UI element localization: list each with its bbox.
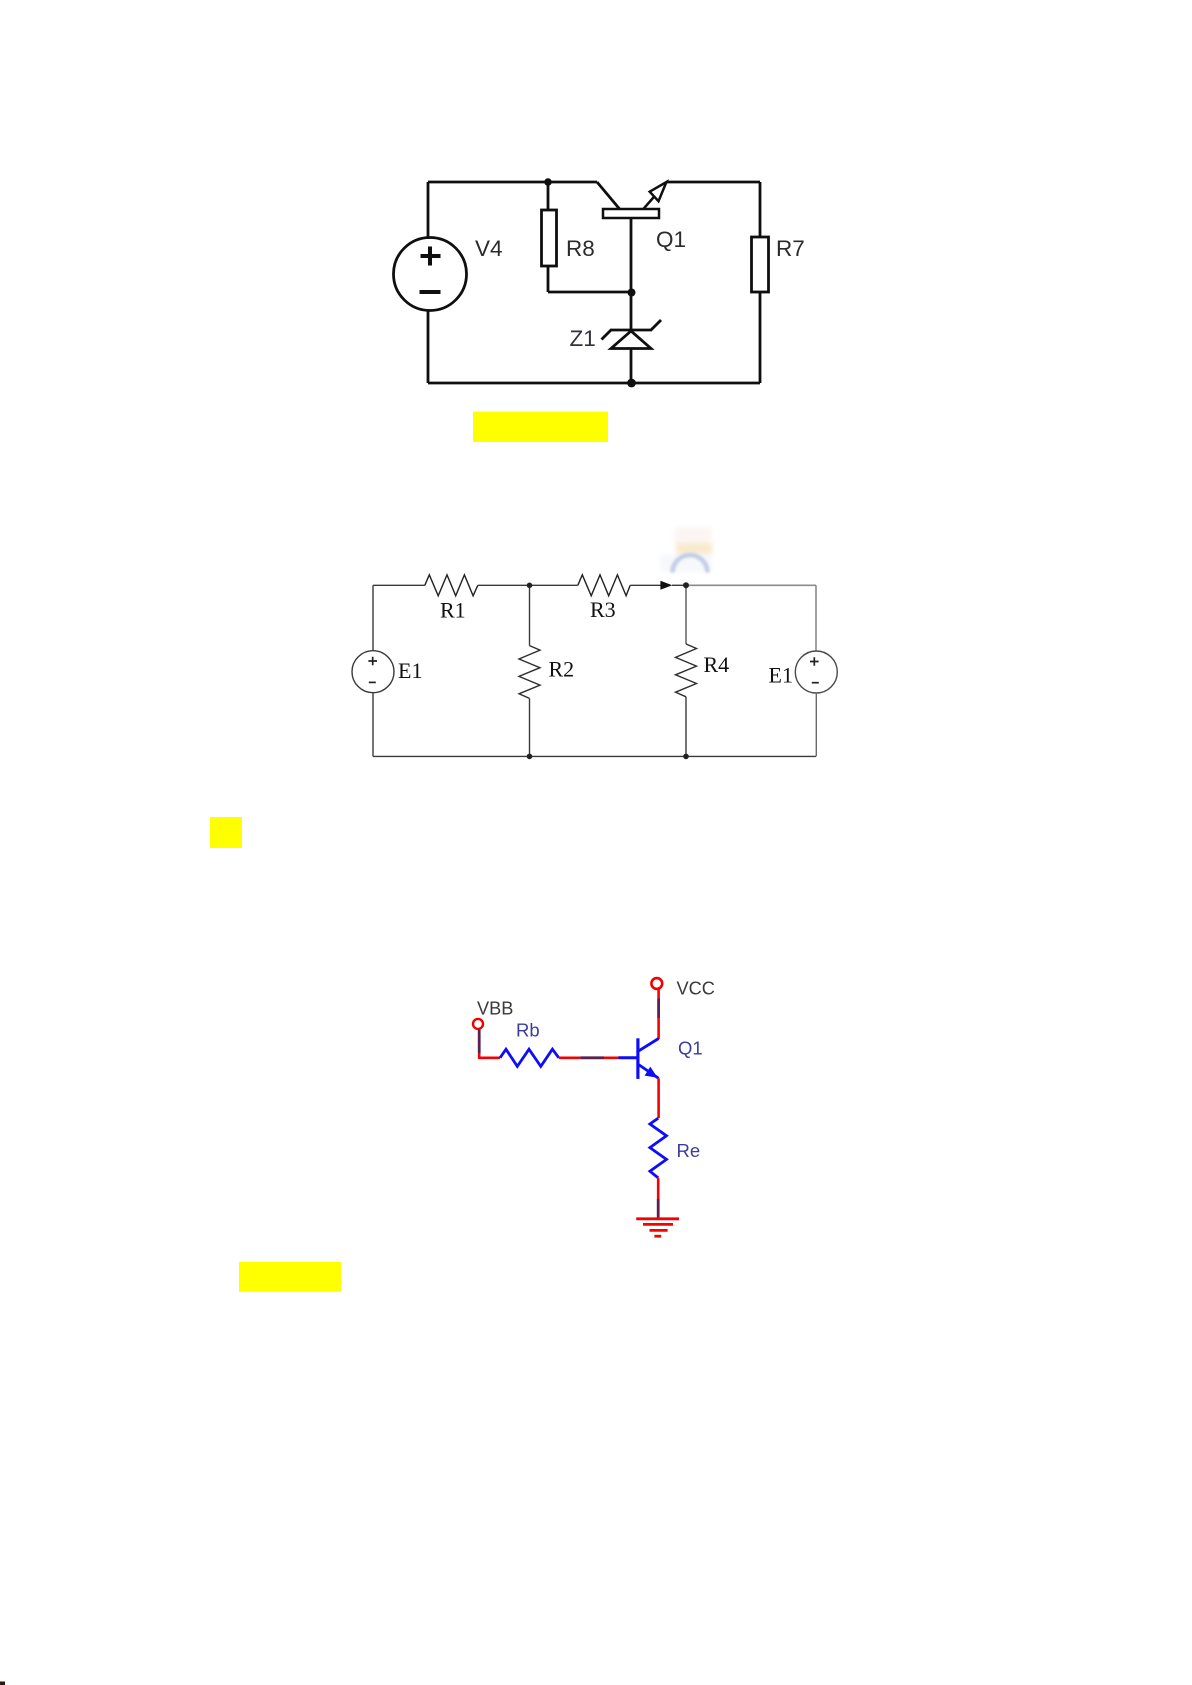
svg-text:Q1: Q1 <box>656 227 686 252</box>
E1 left plus <box>368 657 377 666</box>
junction node at bottom rail / zener <box>627 379 636 388</box>
V4 plus sign <box>421 247 441 266</box>
wire Q1 base down to zener node <box>630 218 633 292</box>
watermark orange band <box>676 543 712 554</box>
watermark haze <box>660 554 712 572</box>
resistor R4 zigzag <box>676 644 697 697</box>
wire top right (Q1 emitter to R7) <box>666 181 760 184</box>
yellow highlight 1 <box>473 412 608 443</box>
svg-text:Rb: Rb <box>516 1020 540 1041</box>
voltage source E1 (left) <box>352 651 394 693</box>
ground symbol line 1 <box>636 1217 679 1220</box>
resistor R1 zigzag <box>425 575 478 596</box>
svg-text:R8: R8 <box>566 236 595 261</box>
wire R8 to base node <box>548 291 631 294</box>
zener Z1 triangle <box>611 331 651 349</box>
E1 right minus <box>812 682 819 684</box>
wire bottom rail <box>428 382 760 385</box>
wire left lower (V4 to bottom rail) <box>427 310 430 383</box>
zener Z1 right bend tick <box>651 320 661 330</box>
svg-text:R2: R2 <box>549 657 575 682</box>
svg-text:R3: R3 <box>590 597 616 622</box>
wire arrow tip to node <box>672 584 686 586</box>
voltage source E1 (right) <box>795 651 837 693</box>
wire right rail lower <box>815 693 817 756</box>
page corner mark <box>0 1682 5 1685</box>
wire R2 upper lead <box>529 585 531 645</box>
wire R3 to arrow <box>630 584 660 586</box>
ground symbol line 2 <box>643 1223 673 1226</box>
svg-text:E1: E1 <box>769 662 793 687</box>
transistor Q1 emitter arrowhead (blue) <box>645 1067 658 1078</box>
wire VBB red elbow <box>479 1053 500 1058</box>
wire top rail left segment <box>373 584 425 586</box>
ground symbol line 3 <box>650 1229 668 1232</box>
wire R2 lower lead <box>529 698 531 756</box>
junction node B (R3/R4/E1) <box>683 582 689 588</box>
wire R4 lower lead <box>685 697 687 757</box>
svg-text:R1: R1 <box>440 598 466 623</box>
wire base red <box>604 1057 619 1060</box>
wire collector red lower <box>657 1018 660 1039</box>
transistor Q1 emitter lead <box>644 197 655 209</box>
wire emitter red <box>657 1078 660 1118</box>
svg-text:Z1: Z1 <box>570 326 596 351</box>
svg-text:V4: V4 <box>475 236 503 261</box>
net segment maroon (VBB net) <box>478 1030 481 1054</box>
resistor Rb zigzag (blue) <box>500 1049 559 1066</box>
resistor R8 (box) <box>542 210 557 266</box>
svg-text:Q1: Q1 <box>678 1038 703 1059</box>
net segment maroon (base net) <box>580 1056 604 1059</box>
wire R7 top lead <box>759 182 762 237</box>
E1 right plus <box>810 657 819 666</box>
small yellow square <box>210 817 242 848</box>
junction node A (R1/R2/R3) <box>527 583 533 589</box>
resistor R2 zigzag <box>519 646 540 699</box>
wire left rail upper <box>372 585 374 650</box>
wire Re to ground red <box>657 1178 660 1199</box>
wire top rail right segment <box>686 584 816 586</box>
resistor Re zigzag (blue) <box>650 1118 667 1178</box>
wire Rb to base red <box>559 1057 581 1060</box>
resistor R7 (box) <box>752 237 769 292</box>
junction node bottom right (R4) <box>683 754 689 760</box>
watermark blue arc <box>673 555 708 573</box>
yellow highlight 2 <box>239 1262 341 1292</box>
transistor Q1 base bar (blue) <box>636 1038 639 1079</box>
wire right rail upper <box>815 585 817 651</box>
V4 minus sign <box>420 290 441 294</box>
zener Z1 cathode bar <box>610 329 652 332</box>
net segment maroon (collector net) <box>657 999 660 1019</box>
wire VCC red upper <box>657 989 660 998</box>
junction node at base / zener <box>628 289 636 297</box>
svg-text:E1: E1 <box>398 658 422 683</box>
white mask under watermark arc bottom <box>655 576 715 585</box>
svg-text:VCC: VCC <box>677 979 715 999</box>
current arrow into node B <box>660 581 672 590</box>
wire R8 bottom lead <box>547 266 550 292</box>
zener Z1 left bend tick <box>602 330 612 340</box>
svg-text:R4: R4 <box>704 652 730 677</box>
transistor Q1 collector lead <box>597 182 620 210</box>
svg-text:R7: R7 <box>776 236 805 261</box>
svg-text:VBB: VBB <box>477 998 513 1018</box>
net segment maroon (ground net) <box>657 1199 660 1218</box>
wire top left (V4+ to R8 node to Q1 collector) <box>428 181 597 184</box>
wire bottom rail <box>373 755 816 757</box>
transistor Q1 emitter arrowhead (open) <box>650 182 667 201</box>
terminal VCC (red ring) <box>651 978 662 989</box>
ground symbol line 4 <box>654 1235 661 1238</box>
wire R4 upper lead <box>685 585 687 644</box>
voltage source V4 <box>394 238 467 311</box>
wire left upper (top rail down to V4) <box>427 182 430 239</box>
transistor Q1 base lead (blue) <box>619 1056 638 1059</box>
transistor Q1 emitter lead (blue) <box>639 1065 659 1079</box>
E1 left minus <box>369 681 376 683</box>
terminal VBB (red ring) <box>473 1019 483 1029</box>
transistor Q1 collector lead (blue) <box>639 1039 659 1052</box>
wire R1 to R3 <box>478 584 578 586</box>
junction node at top rail / R8 <box>544 178 552 186</box>
wire R8 top lead <box>547 182 550 210</box>
wire zener to bottom rail <box>630 349 633 384</box>
wire node to zener Z1 <box>630 292 633 330</box>
wire left rail lower <box>372 693 374 757</box>
resistor R3 zigzag <box>578 575 630 596</box>
watermark pink block <box>674 527 712 543</box>
svg-text:Re: Re <box>677 1140 701 1161</box>
junction node bottom left (R2) <box>527 754 533 760</box>
wire R7 bottom lead <box>759 292 762 383</box>
transistor Q1 base bar <box>603 209 659 218</box>
